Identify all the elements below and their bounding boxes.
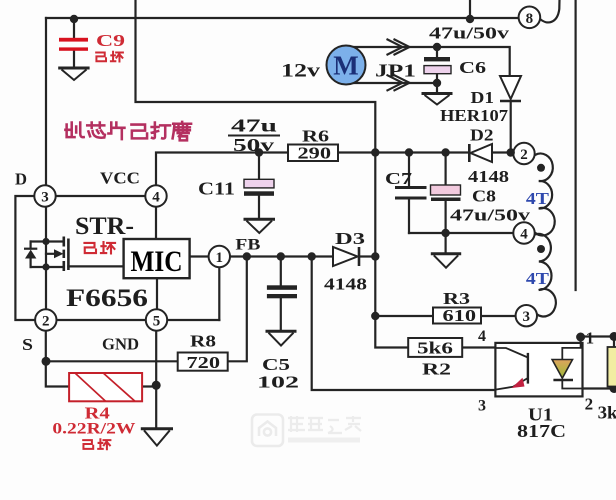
svg-text:1: 1 <box>216 250 224 266</box>
svg-text:4T: 4T <box>526 269 550 288</box>
svg-text:FB: FB <box>235 237 260 254</box>
svg-text:2: 2 <box>42 314 50 330</box>
svg-text:102: 102 <box>257 373 299 392</box>
svg-text:S: S <box>22 335 33 354</box>
svg-text:STR-: STR- <box>75 213 134 240</box>
svg-text:5: 5 <box>153 314 161 330</box>
svg-text:3k: 3k <box>598 403 616 423</box>
svg-text:F6656: F6656 <box>66 285 148 312</box>
svg-text:C6: C6 <box>459 58 486 77</box>
svg-text:4148: 4148 <box>468 167 509 186</box>
svg-text:4: 4 <box>152 190 160 206</box>
svg-text:4: 4 <box>478 328 486 345</box>
svg-text:2: 2 <box>520 147 528 163</box>
svg-text:1: 1 <box>586 329 595 348</box>
svg-text:JP1: JP1 <box>375 61 416 81</box>
svg-text:4148: 4148 <box>324 275 367 294</box>
svg-text:4T: 4T <box>526 189 550 208</box>
svg-text:C11: C11 <box>198 179 235 199</box>
svg-text:3: 3 <box>523 309 531 325</box>
svg-text:610: 610 <box>443 306 477 325</box>
svg-text:12v: 12v <box>281 61 321 82</box>
svg-text:47u/50v: 47u/50v <box>450 206 531 225</box>
svg-text:4: 4 <box>520 227 528 243</box>
svg-text:5k6: 5k6 <box>417 339 453 358</box>
svg-text:720: 720 <box>187 353 221 372</box>
svg-text:D: D <box>15 170 27 189</box>
svg-text:D1: D1 <box>471 88 495 107</box>
svg-text:C7: C7 <box>385 169 413 188</box>
svg-text:C5: C5 <box>262 355 290 374</box>
svg-text:47u/50v: 47u/50v <box>429 24 510 43</box>
svg-text:D3: D3 <box>335 229 365 248</box>
svg-text:VCC: VCC <box>100 169 140 188</box>
svg-text:0.22R/2W: 0.22R/2W <box>52 421 136 438</box>
svg-text:MIC: MIC <box>131 245 183 278</box>
svg-text:50v: 50v <box>233 135 274 155</box>
svg-text:3: 3 <box>478 398 486 415</box>
svg-text:47u: 47u <box>231 116 277 136</box>
svg-text:GND: GND <box>102 335 139 354</box>
svg-text:R8: R8 <box>190 332 216 351</box>
svg-text:C8: C8 <box>472 187 496 206</box>
svg-text:C9: C9 <box>96 31 125 50</box>
svg-text:8: 8 <box>526 11 534 27</box>
svg-text:2: 2 <box>585 395 594 414</box>
svg-text:3: 3 <box>41 190 49 206</box>
svg-text:D2: D2 <box>470 126 494 145</box>
svg-text:290: 290 <box>298 144 332 163</box>
svg-text:817C: 817C <box>517 421 566 441</box>
svg-text:R2: R2 <box>422 360 451 379</box>
svg-text:HER107: HER107 <box>440 106 509 125</box>
svg-text:M: M <box>333 51 358 81</box>
